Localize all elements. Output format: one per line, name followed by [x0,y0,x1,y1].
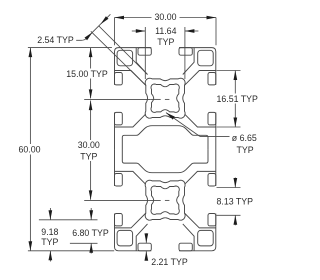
svg-text:TYP: TYP [80,152,97,162]
dim 15.00 TYP: line + ref line at first bore center [90,48,92,99]
svg-text:6.80 TYP: 6.80 TYP [72,228,109,238]
arrowhead 30.00 right [207,16,217,20]
arrowhead 2.54 upper [101,16,109,24]
svg-text:TYP: TYP [157,37,174,47]
center bore star ø6.65 (lower square) [151,186,179,214]
arrowhead 16.51 top [234,71,238,81]
arrowhead 9.18 top [49,210,53,220]
dim 8.13 TYP: extension lines + outside arrows [217,187,241,189]
arrowhead 15.00 bottom [89,89,93,99]
dim 30.00 extension lines [114,18,116,46]
svg-text:15.00 TYP: 15.00 TYP [66,69,108,79]
arrowhead 8.13 bottom [234,215,238,225]
corner chamber hole bottom-left [117,230,133,246]
mid-block inner face and waist ceiling [122,126,165,150]
wire: outer shell top-left (top face + left face with slot opening) [115,48,152,150]
arrowhead 2.54 lower [85,32,93,40]
arrowhead 30.00TYP bottom [89,190,93,200]
label 15.00 TYP [62,69,112,79]
dim 6.80 TYP: extension line + outside arrows [70,242,98,244]
arrowhead 6.80 bottom [89,243,93,253]
arrowhead 60.00 top [29,48,33,58]
arrowhead 15.00 top [89,48,93,58]
corner chamber hole bottom-right [198,230,214,246]
svg-text:ø 6.65: ø 6.65 [232,133,257,143]
svg-text:9.18: 9.18 [41,227,58,237]
left slot upper lip [115,73,123,85]
label 60.00 [16,144,44,155]
arrowhead 30.00TYP top [89,101,93,111]
arrowhead 6.80 top [89,210,93,220]
arrowhead 9.18 bottom [49,251,53,260]
svg-text:16.51 TYP: 16.51 TYP [217,94,259,104]
svg-text:TYP: TYP [237,145,254,155]
center boss wall around bore (lower square) [145,180,185,220]
dim 30.00 TYP: line + ref line at second bore center [90,101,92,200]
dim 16.51 TYP: line + extension lines [234,71,236,128]
svg-text:60.00: 60.00 [18,144,40,154]
profile bottom-left quadrant (mirrored) [115,149,166,251]
arrowhead 11.64 right [185,29,195,33]
svg-text:8.13 TYP: 8.13 TYP [217,196,254,206]
center boss wall around bore (upper square) [145,78,185,118]
dim 9.18 TYP: extension line + outside arrows [39,219,98,221]
svg-text:30.00: 30.00 [78,140,100,150]
center bore star ø6.65 (upper square) [151,84,179,112]
arrowhead 30.00 left [115,16,125,20]
corner chamber hole top-left [117,50,133,66]
dim 11.64 TYP: tails + extension lines [132,30,146,32]
arrowhead 16.51 bottom [234,118,238,128]
dim 2.21 TYP: outside arrows at bottom lip [145,233,147,243]
svg-text:11.64: 11.64 [155,26,176,36]
profile bottom-right quadrant (mirrored) [165,149,216,251]
svg-text:2.21 TYP: 2.21 TYP [151,257,188,267]
label 16.51 TYP [216,94,262,104]
corner chamber hole top-right [198,50,214,66]
arrowhead 60.00 bottom [29,241,33,251]
arrowhead leader ø6.65 [166,113,175,120]
top slot lip (left) [138,48,151,56]
arrowhead 2.21 bottom [145,251,149,261]
profile top-right quadrant (mirrored) [165,48,216,150]
label 30.00 (top width) [152,12,179,23]
corner block inner wall + web edge (top slot side) [136,48,147,75]
dim ø6.65 TYP leader to bore [166,113,200,137]
dim 2.54 arrow tails/leader to text [101,14,111,24]
arrowhead 2.21 top [145,233,149,243]
label 30.00 TYP (square pitch) [74,140,104,161]
svg-text:2.54 TYP: 2.54 TYP [37,35,74,45]
dim 2.54 TYP: diagonal extension lines along web edges [99,26,148,75]
svg-text:30.00: 30.00 [154,12,176,22]
arrowhead 8.13 top [234,178,238,188]
dim 30.00 top: dimension line [115,17,152,19]
left slot lower lip [115,112,123,125]
svg-text:TYP: TYP [41,237,58,247]
left slot chamber bottom wall + web edge to boss [115,114,146,127]
corner block bottom + web edge (left slot side) [115,71,146,86]
dim 60.00: line + top/bottom extension lines [29,48,31,251]
arrowhead 11.64 left [136,29,146,33]
